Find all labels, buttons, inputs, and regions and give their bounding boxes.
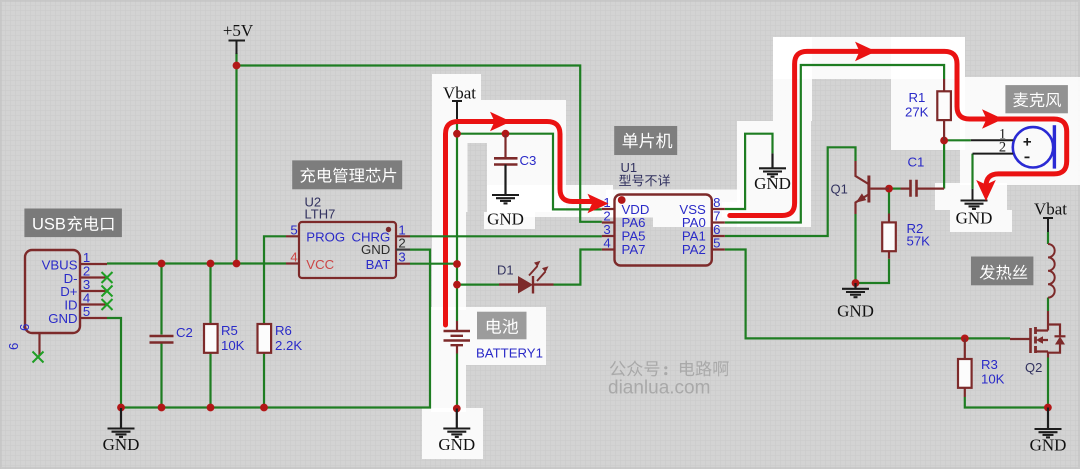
svg-text:5: 5 bbox=[290, 222, 297, 237]
svg-text:2: 2 bbox=[398, 236, 405, 251]
svg-text:GND: GND bbox=[103, 435, 140, 454]
svg-text:D1: D1 bbox=[497, 263, 514, 278]
svg-text:C2: C2 bbox=[176, 325, 193, 340]
svg-text:5: 5 bbox=[83, 304, 90, 319]
svg-text:BATTERY1: BATTERY1 bbox=[476, 346, 543, 361]
svg-text:4: 4 bbox=[603, 235, 610, 250]
svg-text:PA7: PA7 bbox=[622, 242, 646, 257]
svg-text:GND: GND bbox=[754, 174, 791, 193]
svg-text:R1: R1 bbox=[909, 90, 926, 105]
svg-text:PROG: PROG bbox=[306, 230, 345, 245]
svg-text:GND: GND bbox=[487, 210, 524, 229]
svg-text:2.2K: 2.2K bbox=[275, 338, 302, 353]
svg-text:10K: 10K bbox=[221, 338, 245, 353]
svg-text:Vbat: Vbat bbox=[443, 84, 476, 103]
svg-text:Vbat: Vbat bbox=[1034, 200, 1067, 219]
svg-text:2: 2 bbox=[999, 139, 1006, 155]
svg-text:dianlua.com: dianlua.com bbox=[608, 378, 710, 399]
svg-text:10K: 10K bbox=[981, 372, 1005, 387]
svg-text:C1: C1 bbox=[908, 155, 925, 170]
svg-text:USB: USB bbox=[32, 216, 66, 234]
svg-text:4: 4 bbox=[290, 250, 297, 265]
svg-text:LTH7: LTH7 bbox=[305, 207, 336, 222]
svg-text:C3: C3 bbox=[520, 153, 537, 168]
svg-text:27K: 27K bbox=[905, 105, 929, 120]
svg-text:PA2: PA2 bbox=[682, 242, 706, 257]
svg-text:U1: U1 bbox=[621, 160, 638, 175]
svg-text:R3: R3 bbox=[981, 357, 998, 372]
svg-text:GND: GND bbox=[48, 311, 77, 326]
svg-text:Q1: Q1 bbox=[831, 182, 848, 197]
svg-text:R5: R5 bbox=[221, 323, 238, 338]
svg-text:57K: 57K bbox=[907, 234, 931, 249]
svg-text:VCC: VCC bbox=[306, 257, 334, 272]
svg-text:5: 5 bbox=[713, 235, 720, 250]
svg-text:GND: GND bbox=[956, 209, 993, 228]
svg-text:6: 6 bbox=[6, 343, 21, 350]
svg-text:GND: GND bbox=[1030, 436, 1067, 455]
svg-text:+5V: +5V bbox=[223, 21, 254, 40]
svg-text:GND: GND bbox=[438, 435, 475, 454]
svg-text:3: 3 bbox=[398, 250, 405, 265]
svg-text:Q2: Q2 bbox=[1025, 360, 1042, 375]
svg-text:R6: R6 bbox=[275, 323, 292, 338]
svg-text:6: 6 bbox=[17, 324, 32, 331]
svg-text:GND: GND bbox=[837, 302, 874, 321]
svg-text:BAT: BAT bbox=[366, 257, 391, 272]
svg-text:GND: GND bbox=[361, 242, 390, 257]
